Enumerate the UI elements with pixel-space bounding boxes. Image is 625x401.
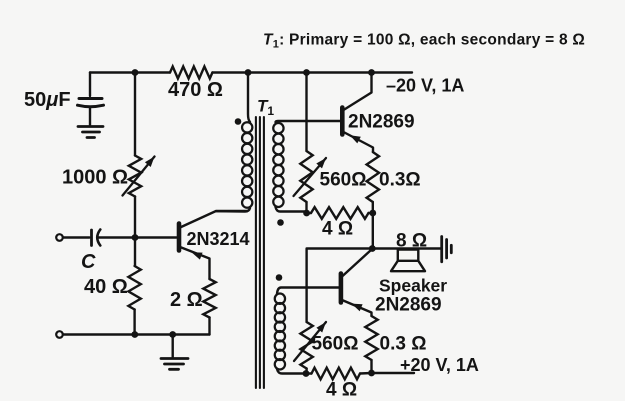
svg-text:40 Ω: 40 Ω bbox=[84, 276, 128, 298]
svg-text:–20 V, 1A: –20 V, 1A bbox=[386, 76, 464, 96]
svg-text:4 Ω: 4 Ω bbox=[326, 380, 357, 401]
svg-text:1000 Ω: 1000 Ω bbox=[62, 167, 128, 189]
svg-text:50μF: 50μF bbox=[24, 89, 71, 111]
svg-text:2 Ω: 2 Ω bbox=[170, 289, 203, 311]
svg-text:0.3 Ω: 0.3 Ω bbox=[380, 334, 427, 355]
svg-text:T1: Primary = 100 Ω, each seco: T1: Primary = 100 Ω, each secondary = 8 … bbox=[263, 32, 585, 51]
svg-text:470 Ω: 470 Ω bbox=[168, 79, 223, 101]
svg-text:0.3Ω: 0.3Ω bbox=[379, 170, 421, 191]
svg-text:8 Ω: 8 Ω bbox=[396, 231, 427, 252]
svg-text:560Ω: 560Ω bbox=[312, 334, 359, 355]
svg-text:Speaker: Speaker bbox=[379, 276, 447, 296]
svg-text:+20 V, 1A: +20 V, 1A bbox=[400, 355, 479, 375]
svg-text:2N3214: 2N3214 bbox=[187, 229, 250, 249]
svg-text:2N2869: 2N2869 bbox=[375, 295, 442, 316]
svg-text:560Ω: 560Ω bbox=[320, 170, 367, 191]
svg-text:4 Ω: 4 Ω bbox=[322, 219, 353, 240]
svg-text:2N2869: 2N2869 bbox=[348, 112, 415, 133]
svg-text:C: C bbox=[81, 251, 96, 273]
